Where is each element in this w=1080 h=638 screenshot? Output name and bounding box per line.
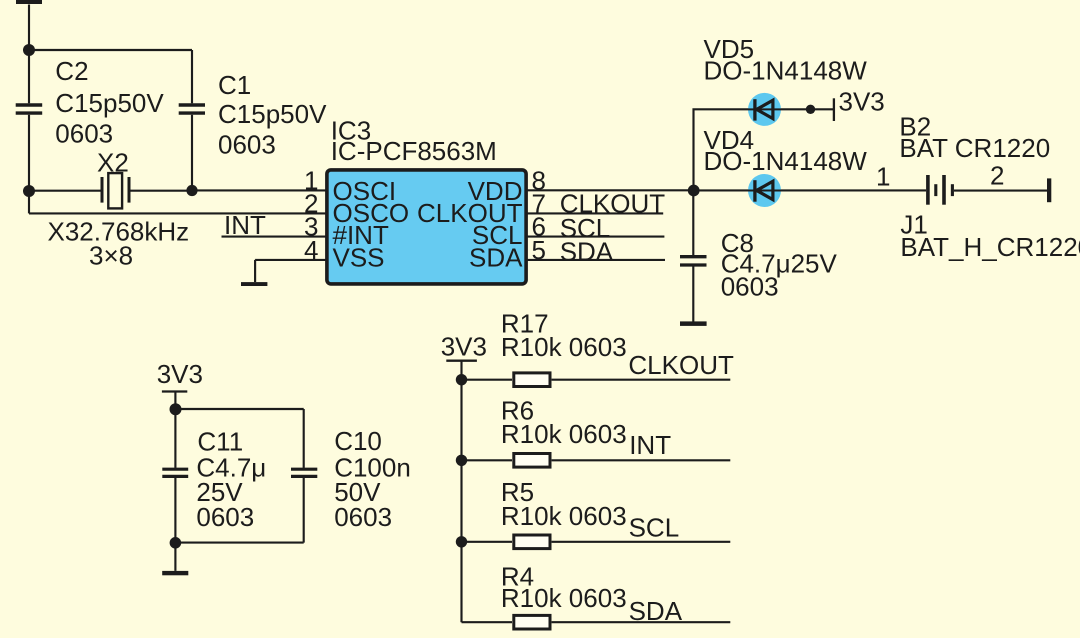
svg-text:SDA: SDA (560, 236, 614, 266)
wire row2 right INT (552, 459, 731, 461)
wire top rail to C10 (175, 408, 303, 410)
svg-text:SDA: SDA (629, 596, 683, 626)
wire bottom rail (175, 542, 303, 544)
wire pin 5 SDA stub (528, 259, 666, 261)
wire 3V3 tick down (174, 392, 176, 410)
capacitor C1 (179, 105, 205, 113)
wire node B to crystal left (29, 190, 101, 192)
svg-text:5: 5 (532, 235, 546, 265)
crystal X2 (102, 173, 129, 208)
svg-text:INT: INT (629, 430, 671, 460)
svg-text:0603: 0603 (334, 502, 392, 532)
junction dot node A (23, 44, 35, 56)
wire down to C1 (191, 50, 193, 103)
resistor R4 (514, 615, 550, 629)
svg-text:2: 2 (990, 160, 1004, 190)
wire node D to battery through VD4 (694, 189, 927, 191)
svg-text:DO-1N4148W: DO-1N4148W (704, 55, 868, 85)
svg-text:R10k 0603: R10k 0603 (501, 419, 627, 449)
power tick 3V3 (VD5) (833, 98, 835, 121)
wire battery to terminal J1 (954, 190, 1047, 192)
wire pin 6 SCL stub (528, 236, 665, 238)
svg-text:CLKOUT: CLKOUT (628, 350, 734, 380)
diode VD5 (748, 93, 781, 126)
svg-text:1: 1 (876, 161, 890, 191)
svg-text:0603: 0603 (196, 502, 254, 532)
svg-text:3V3: 3V3 (839, 87, 885, 117)
capacitor C10 (291, 469, 317, 476)
wire crystal right to node C (128, 190, 192, 192)
svg-text:C15p50V: C15p50V (55, 88, 164, 118)
wire C11 top (174, 409, 176, 468)
wire C8 bottom to ground (692, 266, 694, 321)
wire to pin 2 OSCO (29, 212, 326, 214)
svg-text:IC-PCF8563M: IC-PCF8563M (331, 136, 497, 166)
svg-text:BAT CR1220: BAT CR1220 (899, 133, 1050, 163)
wire row4 right SDA (552, 621, 731, 623)
wire node D up and to VD5 (694, 109, 751, 190)
ground C8 (680, 321, 707, 326)
svg-text:BAT_H_CR1220: BAT_H_CR1220 (900, 232, 1080, 262)
resistor R5 (514, 535, 550, 549)
resistor R6 (514, 454, 550, 468)
svg-text:SDA: SDA (469, 243, 523, 273)
junction dot bus row1 (456, 374, 467, 385)
capacitor C2 (16, 105, 43, 113)
wire pin 4 VSS to ground (255, 259, 325, 261)
svg-text:R10k 0603: R10k 0603 (501, 332, 627, 362)
svg-text:0603: 0603 (55, 118, 113, 148)
svg-text:DO-1N4148W: DO-1N4148W (704, 146, 868, 176)
junction dot node D (688, 185, 700, 197)
wire row3 right SCL (552, 541, 731, 543)
junction dot node B (23, 185, 35, 197)
svg-text:4: 4 (304, 235, 318, 265)
ground at pin 4 (241, 282, 267, 286)
wire C2 bottom to node B (28, 115, 30, 191)
wire net INT to pin 3 (222, 236, 326, 238)
wire C10 bottom (303, 478, 305, 543)
svg-text:3V3: 3V3 (157, 359, 203, 389)
wire pin 7 CLKOUT stub (528, 212, 664, 214)
capacitor C11 (162, 469, 188, 476)
junction dot bus row2 (456, 455, 467, 466)
svg-text:0603: 0603 (721, 271, 779, 301)
svg-text:C2: C2 (55, 56, 88, 86)
wire down to ground pin4 (254, 260, 256, 282)
wire node D down to C8 (692, 190, 694, 255)
connector J1 terminal (1047, 178, 1051, 202)
svg-text:0603: 0603 (218, 129, 276, 159)
wire row2 left (462, 459, 513, 461)
wire node B down for OSCO (28, 191, 30, 213)
wire node C to pin 1 OSCI (192, 189, 326, 191)
resistor R17 (514, 373, 550, 387)
svg-text:3V3: 3V3 (441, 331, 487, 361)
wire row3 left (462, 541, 513, 543)
IC IC3 IC-PCF8563M body (327, 170, 526, 284)
wire 3V3 bus vertical (460, 361, 462, 623)
svg-text:C10: C10 (334, 426, 382, 456)
wire pin 8 VDD to node D (528, 189, 694, 191)
wire row4 left (462, 621, 513, 623)
wire VD5 to dot and 3V3 tick (750, 108, 833, 110)
junction dot node C (186, 185, 197, 196)
svg-text:R10k 0603: R10k 0603 (501, 501, 627, 531)
svg-text:INT: INT (224, 210, 266, 240)
wire row1 right CLKOUT (552, 379, 731, 381)
battery B2 (928, 175, 953, 205)
wire top bar to node (28, 5, 30, 51)
junction dot top rail (170, 403, 182, 415)
junction dot bottom rail (170, 537, 182, 549)
svg-text:C1: C1 (218, 70, 251, 100)
diode VD4 (748, 174, 781, 207)
wire row1 left (462, 379, 513, 381)
junction dot bus row3 (456, 536, 467, 547)
ground caps block (162, 571, 188, 575)
svg-text:3×8: 3×8 (89, 240, 133, 270)
wire node to C1 top (29, 49, 192, 51)
wire C11 bottom (174, 478, 176, 571)
svg-text:SCL: SCL (629, 512, 680, 542)
svg-text:VSS: VSS (333, 243, 385, 273)
svg-text:X2: X2 (97, 147, 129, 177)
junction dot at 3V3 stub (806, 105, 815, 114)
wire C10 branch down (303, 409, 305, 468)
wire C1 bottom to node C (191, 115, 193, 191)
wire node to C2 top (28, 50, 30, 103)
capacitor C8 (680, 257, 707, 265)
svg-text:C15p50V: C15p50V (218, 99, 327, 129)
svg-text:R10k 0603: R10k 0603 (501, 583, 627, 613)
ground top (clipped symbol) (16, 0, 42, 4)
